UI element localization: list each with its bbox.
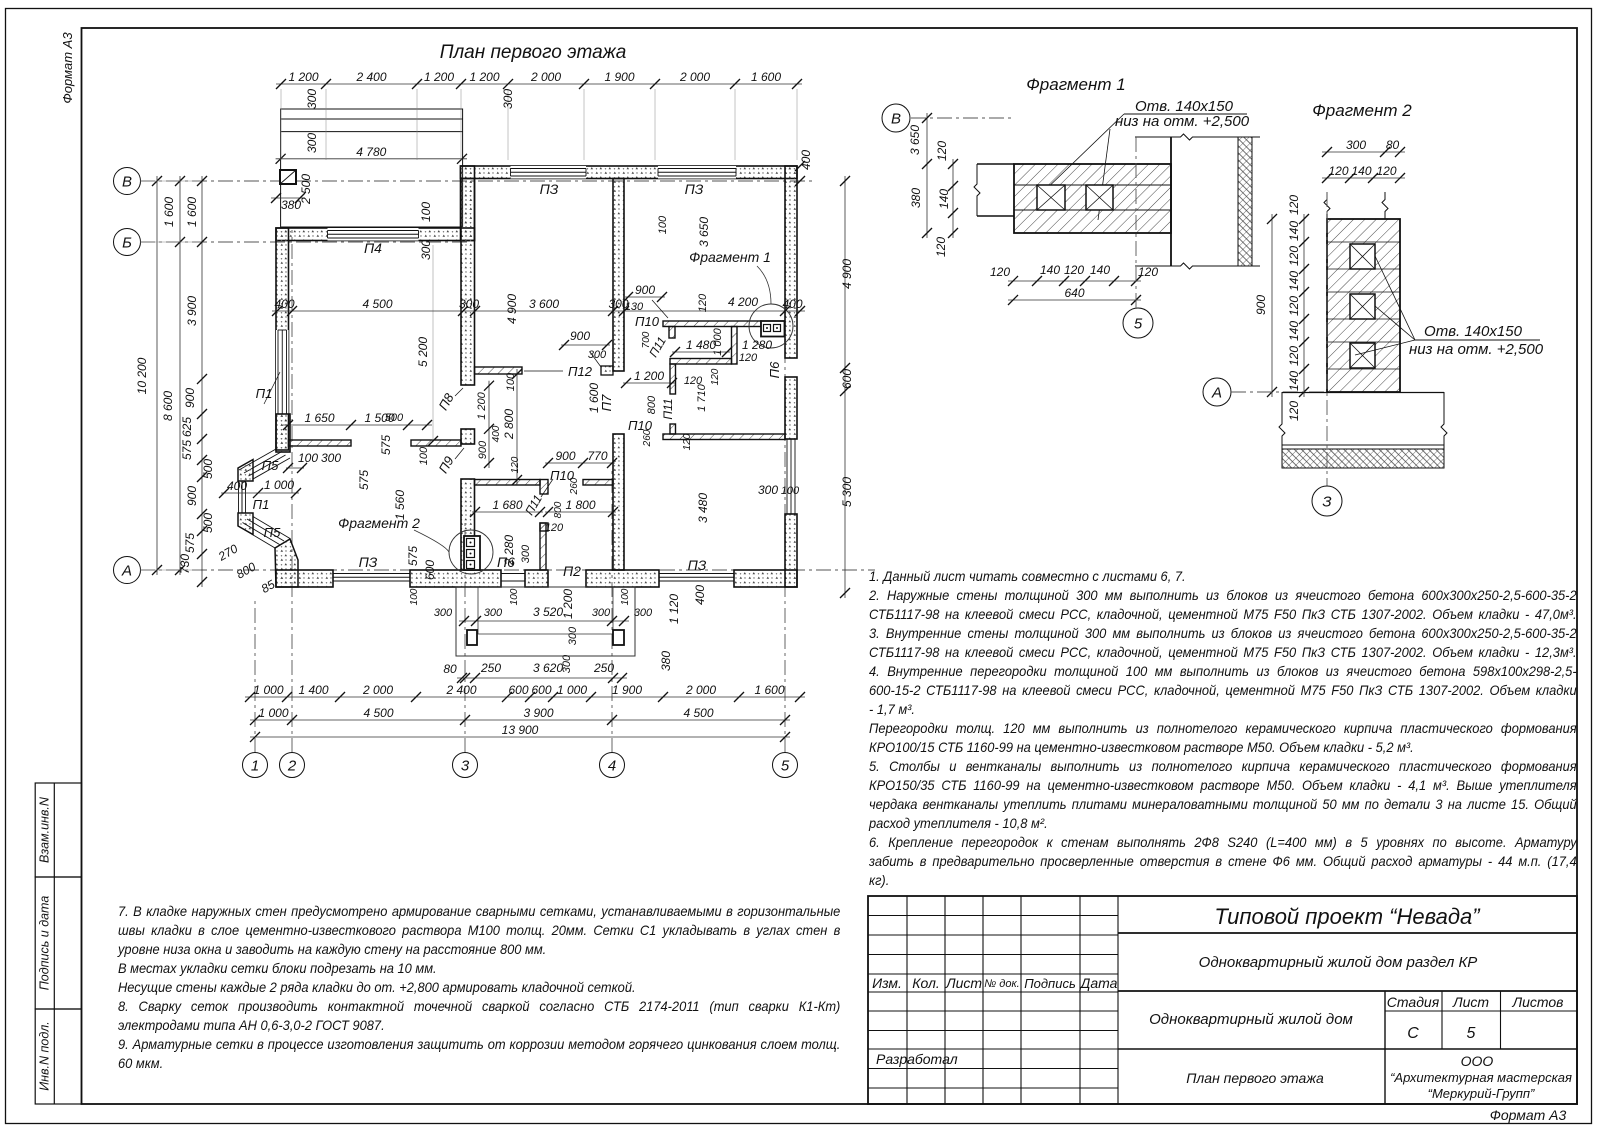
fragment 2 foundation: [1282, 392, 1444, 394]
window П4: [328, 228, 419, 241]
svg-text:5: 5: [781, 757, 790, 774]
svg-text:500: 500: [201, 459, 215, 479]
svg-text:575: 575: [183, 533, 197, 553]
svg-text:Подпись: Подпись: [1024, 976, 1076, 991]
axis bubble А: [114, 557, 141, 584]
bay window П5 lower diagonal: [238, 526, 275, 548]
dim 4 780: [276, 158, 467, 160]
bottom wall segment 5: [734, 570, 797, 587]
wall axis4 upper: [613, 179, 624, 372]
svg-text:Фрагмент 1: Фрагмент 1: [1026, 75, 1125, 94]
title block left table: [868, 915, 1118, 917]
svg-text:300: 300: [501, 89, 515, 109]
svg-text:ООО: ООО: [1461, 1053, 1494, 1069]
svg-text:Фрагмент 2: Фрагмент 2: [1312, 101, 1412, 120]
svg-text:100: 100: [781, 485, 800, 497]
svg-text:300: 300: [434, 607, 453, 619]
svg-text:ПЗ: ПЗ: [359, 554, 378, 570]
svg-text:140: 140: [1287, 371, 1301, 391]
svg-text:900: 900: [555, 449, 575, 463]
tambour jamb 1: [669, 327, 675, 339]
svg-text:В: В: [122, 173, 132, 190]
svg-text:900: 900: [477, 440, 489, 459]
svg-text:2 280: 2 280: [502, 535, 516, 566]
svg-text:2 000: 2 000: [685, 683, 716, 697]
bathroom jamb top: [540, 523, 548, 531]
svg-text:900: 900: [183, 388, 197, 408]
svg-text:ПЗ: ПЗ: [685, 181, 704, 197]
window ПЗ top 1: [511, 166, 587, 179]
fragment 1 dim chains left: [926, 113, 928, 238]
bottom wall segment 3: [525, 570, 548, 587]
svg-text:1 800: 1 800: [565, 498, 595, 512]
svg-text:Типовой проект “Невада”: Типовой проект “Невада”: [1214, 904, 1481, 929]
svg-text:575: 575: [357, 470, 371, 490]
svg-text:120: 120: [1328, 164, 1348, 178]
svg-text:10 200: 10 200: [135, 357, 149, 394]
svg-text:120: 120: [990, 265, 1010, 279]
svg-text:2 000: 2 000: [679, 70, 710, 84]
svg-text:80: 80: [1386, 138, 1400, 152]
right wall upper: [785, 166, 797, 358]
chimney square on axis В: [280, 170, 296, 184]
svg-text:575: 575: [180, 440, 194, 460]
svg-text:575: 575: [379, 435, 393, 455]
svg-text:2 800: 2 800: [502, 409, 516, 440]
svg-text:З: З: [1322, 493, 1331, 510]
terrace post right: [613, 630, 624, 645]
svg-text:Фрагмент 1: Фрагмент 1: [689, 249, 771, 265]
axis bubble В: [114, 168, 141, 195]
svg-text:400: 400: [274, 297, 294, 311]
axis line В: [140, 180, 815, 182]
wall axis3 middle block: [461, 429, 475, 444]
svg-text:300: 300: [588, 349, 607, 361]
svg-text:575: 575: [406, 546, 420, 566]
axis line 3: [464, 520, 466, 753]
svg-text:низ на отм. +2,500: низ на отм. +2,500: [1409, 341, 1544, 358]
svg-text:Отв. 140х150: Отв. 140х150: [1424, 323, 1523, 340]
svg-text:300: 300: [567, 626, 579, 645]
fragment 2 axis А bubble: [1203, 378, 1231, 406]
tambour partition H3: [663, 434, 785, 440]
notes items 1-6: [869, 567, 1577, 890]
top wall left section: [276, 228, 475, 241]
axis bubble 3: [453, 753, 478, 778]
bathroom partition H right: [583, 480, 613, 486]
svg-text:низ на отм. +2,500: низ на отм. +2,500: [1115, 113, 1250, 130]
fragment 2 masonry pillar: [1327, 219, 1400, 392]
svg-text:1 600: 1 600: [751, 70, 781, 84]
dim 1650/1500: [283, 424, 432, 426]
bay window П1 vertical: [238, 481, 240, 513]
bottom wall segment 1: [276, 570, 333, 587]
svg-text:ПЗ: ПЗ: [688, 557, 707, 573]
svg-text:380: 380: [659, 651, 673, 671]
svg-text:П4: П4: [364, 240, 382, 256]
window ПЗ top 2: [658, 166, 736, 179]
svg-text:С: С: [1407, 1025, 1419, 1042]
svg-text:1 200: 1 200: [288, 70, 318, 84]
svg-text:100: 100: [418, 446, 430, 465]
svg-text:3 650: 3 650: [697, 217, 711, 247]
svg-text:120: 120: [1138, 265, 1158, 279]
svg-text:400: 400: [491, 425, 502, 442]
svg-text:120: 120: [697, 293, 709, 312]
svg-text:100: 100: [298, 451, 318, 465]
fragment 2 dim chain 120/140: [1303, 214, 1305, 397]
svg-text:1 000: 1 000: [264, 478, 294, 492]
terrace post left: [467, 630, 477, 645]
fragment 1 vent hole 1: [1037, 185, 1065, 210]
svg-text:120: 120: [1376, 164, 1396, 178]
svg-text:250: 250: [593, 661, 614, 675]
svg-text:120: 120: [1287, 401, 1301, 421]
vent block unit fragment1: [761, 321, 785, 337]
svg-text:1 900: 1 900: [604, 70, 634, 84]
svg-text:Кол.: Кол.: [912, 975, 940, 991]
svg-text:1 200: 1 200: [424, 70, 454, 84]
svg-text:5: 5: [1134, 315, 1143, 332]
svg-text:260: 260: [642, 429, 653, 447]
svg-text:П1: П1: [256, 386, 273, 401]
svg-text:План первого этажа: План первого этажа: [440, 42, 627, 63]
svg-text:900: 900: [185, 486, 199, 506]
tambour partition H2: [670, 359, 732, 365]
svg-text:1 600: 1 600: [587, 383, 601, 413]
fragment 1 dim 640: [1008, 299, 1141, 301]
svg-text:100: 100: [409, 588, 420, 605]
tambour jamb 2 upper: [670, 364, 676, 394]
filing box Взам.инв.N: [35, 783, 81, 877]
svg-text:400: 400: [227, 479, 247, 493]
wall step at axis 3 top: [461, 166, 475, 241]
svg-text:4 500: 4 500: [683, 706, 713, 720]
bay window П5 upper diagonal: [239, 449, 276, 470]
fragment 1 wall corner line: [1170, 137, 1172, 266]
svg-text:2 500: 2 500: [299, 174, 313, 205]
axis line 5: [784, 168, 786, 753]
svg-text:2 400: 2 400: [445, 683, 476, 697]
partition П12: [475, 367, 523, 374]
svg-text:П6: П6: [767, 361, 782, 378]
svg-text:П5: П5: [264, 525, 281, 540]
tambour partition H1: [663, 321, 761, 327]
fragment 2 wall stub above: [1324, 192, 1330, 219]
svg-text:Подпись и дата: Подпись и дата: [38, 896, 52, 991]
tambour jamb 2 lower: [670, 424, 676, 434]
svg-text:П10: П10: [635, 314, 660, 329]
left wall: [276, 228, 289, 450]
fragment1 callout circle: [749, 304, 793, 348]
svg-text:1 000: 1 000: [557, 683, 587, 697]
svg-text:250: 250: [480, 661, 501, 675]
svg-text:120: 120: [1064, 263, 1084, 277]
svg-text:П12: П12: [568, 364, 593, 379]
svg-text:100: 100: [505, 372, 517, 391]
svg-text:120: 120: [1287, 195, 1301, 215]
svg-text:120: 120: [934, 237, 948, 257]
svg-text:300: 300: [561, 654, 573, 673]
terrace dim 3 520: [459, 620, 629, 622]
svg-text:730: 730: [178, 554, 192, 574]
window ПЗ bottom right: [659, 573, 734, 575]
svg-text:4 500: 4 500: [362, 297, 392, 311]
bottom wall segment 4 (П2 opening 548-586): [586, 570, 659, 587]
fragment 1 axis 5 bubble: [1123, 308, 1153, 338]
left dim chain 8 600: [179, 176, 181, 575]
svg-text:120: 120: [1287, 296, 1301, 316]
svg-text:4 500: 4 500: [363, 706, 393, 720]
fragment 2 dim 300/80: [1322, 151, 1405, 153]
svg-text:1: 1: [251, 757, 259, 774]
svg-text:А: А: [1211, 384, 1222, 401]
svg-text:1 000: 1 000: [253, 683, 283, 697]
svg-text:140: 140: [1351, 164, 1371, 178]
axis bubble 2: [280, 753, 305, 778]
svg-text:900: 900: [635, 283, 655, 297]
svg-text:140: 140: [1287, 221, 1301, 241]
svg-text:500: 500: [201, 513, 215, 533]
svg-text:1 680: 1 680: [492, 498, 522, 512]
terrace outline: [456, 587, 635, 656]
svg-text:1 200: 1 200: [634, 369, 664, 383]
svg-text:5 300: 5 300: [840, 477, 854, 507]
svg-text:300: 300: [592, 607, 611, 619]
svg-text:600: 600: [531, 683, 551, 697]
right wall middle (below П6 door): [785, 377, 797, 439]
bottom wall segment 2: [410, 570, 501, 587]
svg-text:900: 900: [1254, 295, 1268, 315]
svg-text:А: А: [121, 562, 132, 579]
svg-text:100: 100: [620, 588, 631, 605]
bay dims: [221, 492, 299, 494]
svg-text:400: 400: [693, 585, 707, 605]
filing box Подпись и дата: [35, 877, 81, 1009]
svg-text:4 200: 4 200: [728, 295, 758, 309]
title block outline: [868, 896, 1577, 1104]
svg-text:4 780: 4 780: [356, 145, 386, 159]
svg-text:1 600: 1 600: [185, 197, 199, 227]
svg-text:120: 120: [1287, 246, 1301, 266]
axis bubble 1: [243, 753, 268, 778]
dim chain bottom A: [245, 696, 805, 698]
filing box Инв.N подл.: [35, 1009, 81, 1104]
fragment 2 vent hole 2: [1350, 294, 1375, 319]
fragment 1 insulation crosshatch: [1238, 137, 1252, 266]
svg-text:Лист: Лист: [945, 975, 982, 991]
svg-text:Одноквартирный жилой дом: Одноквартирный жилой дом: [1149, 1011, 1353, 1028]
dim chain bottom B: [250, 719, 790, 721]
window П1 left: [276, 330, 289, 414]
wall axis4 lower: [613, 434, 624, 570]
bay corner block top: [276, 414, 290, 452]
bath dims: [545, 462, 615, 464]
axis line 2: [291, 230, 293, 753]
svg-text:2: 2: [287, 757, 297, 774]
svg-text:1 650: 1 650: [304, 411, 334, 425]
svg-text:300: 300: [1346, 138, 1366, 152]
svg-text:260: 260: [569, 477, 580, 495]
fragment2 callout circle: [449, 530, 493, 574]
svg-text:140: 140: [937, 189, 951, 209]
svg-text:Изм.: Изм.: [872, 975, 902, 991]
window ПЗ bottom left: [333, 573, 410, 575]
fragment 1 dim chain bottom: [1008, 280, 1141, 282]
svg-text:1 200: 1 200: [476, 391, 488, 419]
svg-text:600: 600: [508, 683, 528, 697]
svg-text:Фрагмент 2: Фрагмент 2: [338, 515, 420, 531]
svg-text:“Меркурий-Групп”: “Меркурий-Групп”: [1428, 1086, 1535, 1101]
svg-text:Разработал: Разработал: [876, 1051, 958, 1067]
bathroom partition V: [540, 523, 546, 570]
svg-text:300: 300: [634, 607, 653, 619]
dim chain bottom C: [250, 736, 790, 738]
svg-text:300: 300: [305, 133, 319, 153]
tambour partition V1: [732, 327, 738, 365]
svg-text:120: 120: [710, 368, 721, 385]
svg-text:2 000: 2 000: [362, 683, 393, 697]
svg-text:600: 600: [840, 369, 854, 389]
svg-text:Дата: Дата: [1079, 975, 1118, 991]
garage partition left: [289, 440, 352, 446]
svg-text:3 650: 3 650: [908, 125, 922, 155]
svg-text:Взам.инв.N: Взам.инв.N: [38, 796, 52, 863]
fragment 2 axis З: [1326, 192, 1328, 486]
svg-text:800: 800: [553, 501, 564, 518]
svg-text:700: 700: [641, 331, 652, 348]
svg-text:“Архитектурная мастерская: “Архитектурная мастерская: [1390, 1070, 1572, 1085]
svg-text:400: 400: [782, 297, 802, 311]
svg-text:130: 130: [625, 301, 644, 313]
svg-text:500: 500: [385, 412, 404, 424]
svg-text:300: 300: [484, 607, 503, 619]
bay block left upper: [238, 460, 253, 482]
right wall lower: [785, 514, 797, 587]
fragment 1 wall stub: [977, 163, 1014, 165]
svg-text:400: 400: [799, 150, 813, 170]
left dim chain detail: [201, 176, 203, 587]
svg-text:1 600: 1 600: [754, 683, 784, 697]
svg-text:120: 120: [1287, 346, 1301, 366]
fragment 2 vent hole 1: [1350, 244, 1375, 269]
axis bubble Б: [114, 229, 141, 256]
dim chain middle y311: [272, 310, 805, 312]
svg-text:120: 120: [739, 352, 758, 364]
svg-text:Формат А3: Формат А3: [60, 32, 75, 104]
axis line Б: [140, 241, 470, 243]
svg-text:13 900: 13 900: [502, 723, 539, 737]
svg-text:3 600: 3 600: [529, 297, 559, 311]
svg-text:300: 300: [321, 451, 341, 465]
svg-text:300: 300: [419, 240, 433, 260]
svg-text:100: 100: [419, 202, 433, 222]
svg-text:380: 380: [909, 188, 923, 208]
svg-text:140: 140: [1090, 263, 1110, 277]
svg-text:1 000: 1 000: [712, 327, 724, 355]
bay block left lower: [238, 513, 253, 535]
svg-text:120: 120: [545, 522, 564, 534]
fragment 1 leaders: [1040, 114, 1124, 195]
svg-text:П7: П7: [599, 394, 614, 411]
svg-text:1 280: 1 280: [742, 338, 772, 352]
svg-text:625: 625: [180, 417, 194, 437]
svg-text:140: 140: [1287, 271, 1301, 291]
left dim chain 10 200: [156, 176, 158, 575]
wall axis3 upper: [461, 179, 475, 386]
svg-text:3 900: 3 900: [185, 296, 199, 326]
fragment 1 outer wall lines: [1135, 134, 1238, 140]
svg-text:Стадия: Стадия: [1387, 994, 1440, 1010]
vent pillar fragment2: [464, 536, 480, 570]
svg-text:120: 120: [682, 433, 693, 450]
svg-text:140: 140: [1040, 263, 1060, 277]
svg-text:В: В: [891, 110, 901, 127]
dim chain top: [276, 83, 802, 85]
svg-text:1 200: 1 200: [561, 589, 575, 619]
bay corner block bottom: [275, 539, 298, 587]
svg-text:120: 120: [510, 456, 521, 473]
fragment 1 masonry block: [1014, 164, 1171, 233]
svg-text:1 200: 1 200: [469, 70, 499, 84]
svg-text:№ док.: № док.: [984, 978, 1019, 990]
svg-text:ПЗ: ПЗ: [540, 181, 559, 197]
dim 5200 extension line: [432, 245, 434, 441]
fragment 1 axis В bubble: [882, 104, 910, 132]
fragment 1 vent hole 2: [1086, 185, 1113, 210]
svg-text:П5: П5: [262, 458, 279, 473]
svg-text:1 120: 1 120: [667, 594, 681, 624]
svg-text:Инв.N подл.: Инв.N подл.: [38, 1021, 52, 1091]
svg-text:140: 140: [1287, 321, 1301, 341]
svg-text:5 200: 5 200: [416, 337, 430, 367]
fragment 2 dim 900: [1271, 214, 1273, 397]
svg-text:900: 900: [570, 329, 590, 343]
svg-text:100: 100: [509, 588, 520, 605]
right dim chain: [844, 176, 846, 598]
fragment 2 dim 120/140/120: [1322, 177, 1405, 179]
svg-text:1 000: 1 000: [258, 706, 288, 720]
svg-text:2 400: 2 400: [355, 70, 386, 84]
svg-text:4 900: 4 900: [840, 259, 854, 289]
svg-text:300: 300: [758, 483, 778, 497]
svg-text:3: 3: [461, 757, 470, 774]
wall axis3 lower: [461, 479, 475, 570]
fragment 2 vent hole 3: [1350, 343, 1375, 368]
svg-text:Одноквартирный жилой дом разде: Одноквартирный жилой дом раздел КР: [1199, 954, 1478, 971]
bathroom partition H left: [475, 480, 541, 486]
vertical chain x517: [516, 369, 518, 485]
svg-text:8 600: 8 600: [161, 391, 175, 421]
svg-text:80: 80: [443, 662, 457, 676]
svg-text:600: 600: [423, 560, 437, 580]
svg-text:Лист: Лист: [1452, 994, 1489, 1010]
svg-text:100: 100: [657, 215, 669, 234]
svg-text:Листов: Листов: [1512, 994, 1564, 1010]
svg-text:1 600: 1 600: [162, 197, 176, 227]
svg-text:План первого этажа: План первого этажа: [1186, 1070, 1324, 1086]
tambour dims: [625, 296, 665, 298]
axis line 4: [611, 470, 613, 753]
label П1 left wall leader: [264, 372, 280, 404]
svg-text:4: 4: [608, 757, 616, 774]
terrace dim 3 620: [457, 677, 627, 679]
П7 door jamb: [601, 366, 613, 375]
svg-text:3 620: 3 620: [533, 661, 563, 675]
svg-text:3 900: 3 900: [523, 706, 553, 720]
svg-text:770: 770: [587, 449, 607, 463]
dim 380 small: [271, 197, 305, 199]
